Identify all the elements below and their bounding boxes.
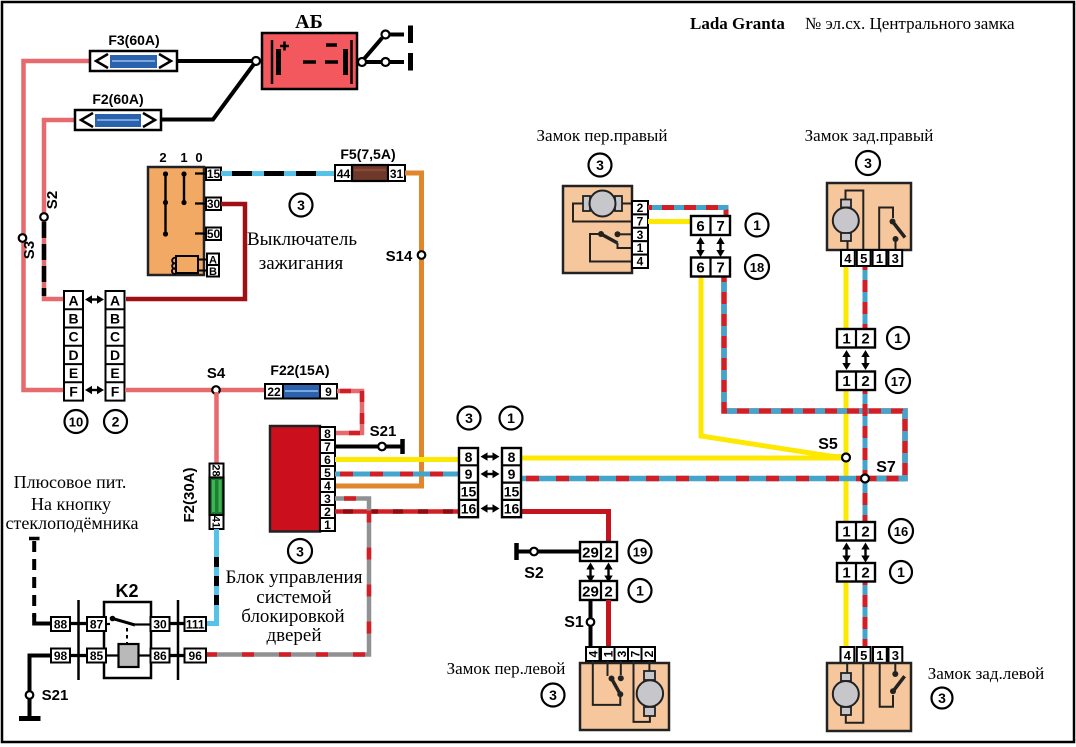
arrow mid 9 row [481, 470, 500, 478]
rear right lock pin 1 [873, 250, 887, 266]
svg-text:3: 3 [596, 157, 604, 173]
svg-text:На кнопку: На кнопку [31, 494, 111, 514]
connector pair mid: circle 1 [500, 407, 523, 430]
wire yellow pin6 to connector 8 [335, 457, 459, 462]
wire black 29 to lock pin4 with node S1 [564, 600, 594, 648]
svg-text:1: 1 [753, 217, 761, 233]
svg-text:F3(60A): F3(60A) [108, 32, 159, 48]
label circle 1 front-left [629, 579, 652, 602]
label circle 3 control [288, 539, 312, 563]
connector strip right (2) A-F [106, 291, 125, 401]
wire orange F5 to control pin4 [335, 173, 422, 486]
arrow 7 column [716, 237, 724, 257]
svg-text:2: 2 [637, 201, 644, 215]
svg-text:2: 2 [324, 505, 331, 519]
connector mid right 8/9/15/16 [502, 448, 521, 517]
node S5 [818, 436, 850, 462]
label circle 10 [65, 410, 88, 433]
svg-text:96: 96 [189, 649, 203, 663]
fuse F2(60A) [75, 91, 161, 130]
svg-text:87: 87 [90, 618, 104, 632]
svg-text:4: 4 [324, 479, 331, 493]
svg-text:44: 44 [337, 167, 351, 181]
svg-text:E: E [110, 365, 119, 381]
wire black pin7 to S21 terminal [335, 423, 403, 454]
svg-text:B: B [209, 266, 217, 278]
svg-text:3: 3 [296, 544, 304, 560]
wire pink F2 feed to strip A with black dashes [44, 120, 75, 299]
svg-text:1: 1 [601, 650, 615, 657]
rear left lock pin 3 [889, 647, 903, 663]
connector mid left 8/9/15/16 [459, 448, 478, 517]
svg-text:2: 2 [604, 545, 612, 562]
rear left lock pin 4 [841, 647, 855, 663]
wire gray-red pin3 to relay 96 [206, 499, 369, 655]
arrow 6 column [696, 237, 704, 257]
connector 29|2 upper (19) [580, 542, 617, 562]
svg-text:S4: S4 [207, 365, 226, 382]
wire pink strip F to S4 to F22 [125, 388, 265, 393]
wire black F2 to battery diagonal [161, 64, 254, 120]
svg-text:F2(30A): F2(30A) [181, 467, 198, 522]
relay K2 body [104, 602, 151, 678]
label circle 1 rear-left [890, 561, 912, 583]
fuse F22(15A) [265, 362, 337, 399]
caption window lifter feed [6, 472, 139, 533]
control pin 2 [320, 505, 335, 519]
svg-text:1: 1 [842, 373, 850, 390]
svg-text:1: 1 [507, 410, 515, 426]
label circle 3 front right lock [589, 154, 612, 177]
front left lock pin 1 [601, 647, 615, 661]
rear right lock pin 5 [857, 250, 871, 266]
svg-text:2: 2 [861, 331, 869, 348]
wire red-blue S7 down to rear-left [863, 479, 868, 649]
ignition pin 50 [206, 227, 221, 241]
svg-text:Замок зад.левой: Замок зад.левой [928, 664, 1045, 683]
svg-text:6: 6 [696, 218, 704, 235]
wire pink S4 to fuse F2(30A) [214, 392, 219, 464]
label circle 3 rear right lock [856, 151, 880, 175]
svg-text:22: 22 [267, 385, 281, 399]
control unit block body [270, 426, 320, 532]
svg-text:S1: S1 [564, 614, 584, 631]
svg-text:5: 5 [860, 251, 867, 266]
label circle 17 [886, 369, 910, 393]
svg-text:16: 16 [504, 501, 520, 517]
node S2 [40, 191, 61, 221]
label circle 2 [104, 410, 127, 433]
svg-text:S3: S3 [21, 241, 38, 259]
svg-text:8: 8 [324, 427, 331, 441]
svg-text:1: 1 [842, 524, 850, 541]
svg-text:6: 6 [696, 260, 704, 277]
svg-text:Выключатель: Выключатель [247, 229, 357, 250]
svg-text:41: 41 [210, 516, 222, 528]
rear left lock body [827, 663, 911, 731]
arrow F row [85, 386, 104, 394]
svg-text:зажигания: зажигания [259, 253, 344, 274]
wire red pin2 to connector 16 [335, 509, 459, 514]
wire black F3 to battery [177, 59, 252, 63]
svg-text:2: 2 [112, 414, 120, 430]
arrow 29 column [586, 563, 594, 583]
connector 6|7 upper (1) [691, 216, 730, 235]
wire blue with black dashes ignition15 to F5 [221, 171, 335, 176]
ignition pin A [207, 254, 219, 267]
svg-text:2: 2 [604, 584, 612, 601]
wire blue F2(30A) to relay 111 with black dashes [206, 529, 217, 624]
wire yellow connector8 to S5 [521, 456, 846, 461]
svg-text:3: 3 [324, 492, 331, 506]
svg-text:S7: S7 [876, 459, 896, 476]
svg-text:86: 86 [153, 649, 167, 663]
svg-text:1: 1 [876, 251, 883, 266]
ignition pin 15 [206, 167, 221, 181]
front left lock pin 2 [642, 647, 656, 661]
svg-text:E: E [69, 365, 78, 381]
relay pin 96 [185, 649, 207, 664]
ignition pin B [207, 265, 219, 278]
svg-text:17: 17 [891, 374, 905, 389]
svg-text:2: 2 [861, 373, 869, 390]
svg-text:15: 15 [461, 484, 477, 500]
arrow mid 16 row [481, 504, 500, 512]
svg-text:1: 1 [876, 648, 883, 663]
front left lock body [580, 661, 669, 730]
svg-text:S5: S5 [818, 436, 838, 453]
svg-text:8: 8 [465, 449, 473, 465]
caption control unit [226, 567, 363, 646]
svg-text:4: 4 [844, 251, 852, 266]
svg-text:F2(60A): F2(60A) [92, 91, 143, 107]
label circle 1 rear-right [887, 327, 909, 349]
svg-text:1: 1 [324, 518, 331, 532]
relay connector bar right [177, 600, 180, 680]
front right lock body [563, 186, 632, 273]
svg-text:F: F [69, 384, 78, 400]
relay pin 88 [51, 617, 70, 632]
wire dark red ignition30 to right strip A [126, 204, 245, 299]
svg-text:3: 3 [549, 687, 557, 703]
svg-text:9: 9 [508, 466, 516, 482]
connector strip left (10) A-F [64, 291, 83, 401]
relay pin 85 [87, 649, 106, 664]
svg-text:стеклоподёмника: стеклоподёмника [6, 513, 139, 533]
svg-text:Lada Granta: Lada Granta [690, 14, 785, 33]
svg-text:9: 9 [325, 385, 332, 399]
front right lock pin 7 [632, 214, 648, 228]
relay pin 30 [151, 617, 170, 632]
svg-text:C: C [68, 329, 78, 345]
wire black battery to body terminal upper [364, 26, 411, 60]
svg-text:30: 30 [153, 618, 167, 632]
svg-text:5: 5 [324, 466, 331, 480]
node S7 [861, 459, 896, 483]
svg-text:Плюсовое пит.: Плюсовое пит. [14, 472, 127, 492]
relay pin 111 [185, 617, 207, 632]
relay connector bar left [77, 600, 80, 680]
rear right lock pin 3 [888, 250, 902, 266]
svg-text:3: 3 [892, 648, 899, 663]
control pin 1 [320, 518, 335, 532]
svg-text:31: 31 [390, 167, 404, 181]
svg-text:4: 4 [637, 255, 644, 269]
svg-text:0: 0 [195, 150, 202, 165]
svg-text:7: 7 [637, 214, 644, 228]
front right lock pin 3 [632, 228, 648, 242]
connector 1|2 rear-left lower (1) [837, 563, 875, 582]
svg-text:A: A [68, 293, 78, 309]
ignition switch U-ign [148, 150, 207, 275]
rear right lock body [827, 183, 911, 250]
wire yellow rear-right lock to connectors [844, 266, 849, 458]
svg-text:2: 2 [861, 524, 869, 541]
svg-text:98: 98 [54, 649, 68, 663]
svg-text:D: D [68, 347, 78, 363]
svg-text:30: 30 [207, 197, 221, 211]
svg-text:7: 7 [716, 218, 724, 235]
rear left lock pin 1 [873, 647, 887, 663]
svg-text:F22(15A): F22(15A) [270, 362, 329, 378]
wire blue-red pin5 to connector 9 [335, 472, 459, 477]
connector 1|2 rear-right lower (17) [837, 372, 875, 391]
relay link wires [70, 624, 185, 656]
arrow mid 8 row [481, 452, 500, 460]
svg-text:1: 1 [636, 583, 644, 599]
svg-text:16: 16 [461, 501, 477, 517]
svg-text:7: 7 [716, 260, 724, 277]
svg-text:1: 1 [842, 565, 850, 582]
wire black relay 98 to ground S21 [19, 656, 68, 719]
wire yellow lock pin7 to connector 6 [648, 219, 691, 224]
svg-text:B: B [68, 311, 78, 327]
arrow A row [85, 295, 104, 303]
control pin 3 [320, 492, 335, 506]
svg-text:7: 7 [628, 650, 642, 657]
relay pin 87 [87, 617, 106, 632]
svg-text:4: 4 [844, 648, 852, 663]
svg-text:3: 3 [297, 197, 305, 213]
rear left lock pin 5 [857, 647, 871, 663]
svg-text:Замок зад.правый: Замок зад.правый [805, 126, 934, 145]
svg-text:S21: S21 [370, 423, 397, 440]
control pin 7 [320, 440, 335, 454]
wire blue-red connector9 to S7 and loop corner [521, 476, 905, 482]
svg-text:1: 1 [637, 241, 644, 255]
front left lock pin 7 [628, 647, 642, 661]
svg-text:4: 4 [586, 650, 600, 657]
title [690, 14, 1015, 33]
label circle 1 front-right [746, 214, 769, 237]
rear right lock pin 4 [841, 250, 855, 266]
fuse F3(60A) [90, 32, 177, 71]
svg-text:S2: S2 [44, 191, 61, 209]
wire yellow front-right branch diagonal to S5 [701, 276, 842, 457]
svg-text:K2: K2 [115, 581, 138, 601]
svg-text:C: C [110, 329, 120, 345]
svg-text:Блок управления: Блок управления [226, 567, 363, 588]
svg-text:6: 6 [324, 453, 331, 467]
label circle 16 [889, 519, 913, 543]
svg-text:1: 1 [842, 331, 850, 348]
svg-text:АБ: АБ [295, 11, 323, 33]
wire red-salmon F22 to control pin8 [335, 391, 362, 433]
arrow rr 1 column [842, 350, 850, 370]
control pin 5 [320, 466, 335, 480]
connector 1|2 rear-right upper (1) [837, 329, 875, 348]
fuse F5(7,5A) [335, 146, 405, 181]
svg-text:B: B [110, 311, 120, 327]
node S4 [207, 365, 226, 394]
front left lock pin 4 [586, 647, 600, 661]
arrow 2 column [604, 563, 612, 583]
front right lock pin 1 [632, 241, 648, 255]
label circle 3 ignition [290, 194, 313, 217]
label circle 19 [629, 540, 652, 563]
svg-text:15: 15 [504, 484, 520, 500]
svg-text:Замок пер.левой: Замок пер.левой [447, 659, 566, 678]
svg-text:A: A [110, 293, 120, 309]
svg-text:Замок пер.правый: Замок пер.правый [537, 126, 668, 145]
svg-text:дверей: дверей [266, 625, 321, 646]
svg-text:111: 111 [186, 618, 205, 632]
svg-text:3: 3 [864, 155, 872, 171]
svg-text:50: 50 [207, 227, 221, 241]
arrow rl 1 column [842, 543, 850, 563]
svg-text:2: 2 [159, 150, 166, 165]
battery АБ [252, 11, 357, 89]
front right lock pin 4 [632, 255, 648, 269]
svg-text:3: 3 [892, 251, 899, 266]
svg-text:85: 85 [90, 649, 104, 663]
relay pin 86 [151, 649, 170, 664]
label circle 3 rear left lock [932, 688, 953, 709]
svg-text:системой: системой [256, 587, 331, 608]
svg-text:3: 3 [465, 410, 473, 426]
svg-text:19: 19 [633, 545, 647, 560]
svg-text:8: 8 [508, 449, 516, 465]
svg-text:1: 1 [180, 150, 187, 165]
arrow rl 2 column [861, 543, 869, 563]
svg-text:1: 1 [894, 330, 902, 346]
svg-text:3: 3 [938, 690, 946, 706]
svg-text:2: 2 [861, 565, 869, 582]
svg-text:2: 2 [642, 650, 656, 657]
node S14 [386, 248, 426, 265]
connector 1|2 rear-left upper (16) [837, 522, 875, 541]
connector 6|7 lower (18) [691, 258, 730, 277]
wire yellow S5 down to rear-left [844, 458, 849, 648]
node S3 [19, 234, 38, 259]
relay pin 98 [51, 649, 70, 664]
svg-text:S2: S2 [524, 565, 544, 582]
svg-text:88: 88 [54, 618, 68, 632]
connector pair mid: circle 3 [458, 407, 481, 430]
svg-text:28: 28 [210, 464, 222, 476]
svg-text:16: 16 [894, 524, 908, 539]
ignition pin 30 [206, 197, 221, 211]
svg-text:18: 18 [750, 260, 764, 275]
front right lock pin 2 [632, 201, 648, 215]
svg-text:9: 9 [465, 466, 473, 482]
wire red-blue rear-right lock to connectors [863, 266, 868, 478]
svg-text:29: 29 [582, 545, 599, 562]
svg-text:S14: S14 [386, 248, 413, 265]
front left lock pin 3 [615, 647, 629, 661]
arrow rr 2 column [861, 350, 869, 370]
wire red-blue front-right loop to S7 [724, 276, 905, 479]
connector 29|2 lower (1) [580, 581, 617, 601]
label circle 18 [745, 255, 769, 279]
svg-text:1: 1 [897, 564, 905, 580]
svg-text:S21: S21 [42, 687, 69, 704]
fuse F2(30A) [181, 464, 224, 530]
wire red connector16 to lock connector 19 [521, 512, 609, 544]
caption ignition switch [247, 229, 357, 274]
svg-text:7: 7 [324, 440, 331, 454]
svg-text:F: F [111, 384, 120, 400]
control pin 6 [320, 453, 335, 467]
svg-text:5: 5 [860, 648, 867, 663]
svg-text:15: 15 [207, 167, 221, 181]
wire black battery to body terminal lower [358, 53, 411, 71]
svg-text:D: D [110, 347, 120, 363]
wire black dashed window lifter to relay 88 [29, 539, 51, 624]
control pin 8 [320, 427, 335, 441]
wire pink battery feed F3 to connector strip F [24, 61, 91, 390]
svg-text:10: 10 [69, 415, 83, 430]
label circle 3 front left lock [542, 684, 565, 707]
wire red-blue lock pin2 to connector 7 [648, 208, 726, 217]
svg-text:№ эл.сх. Центрального: № эл.сх. Центрального [805, 14, 971, 33]
svg-text:3: 3 [637, 228, 644, 242]
terminal S2 front-left [517, 543, 581, 582]
control pin 4 [320, 479, 335, 493]
svg-text:блокировкой: блокировкой [241, 606, 344, 627]
svg-text:3: 3 [615, 650, 629, 657]
svg-text:F5(7,5A): F5(7,5A) [340, 146, 395, 162]
svg-text:29: 29 [582, 584, 599, 601]
wire red 2 to lock pin1 [606, 600, 611, 648]
svg-text:замка: замка [974, 14, 1015, 33]
